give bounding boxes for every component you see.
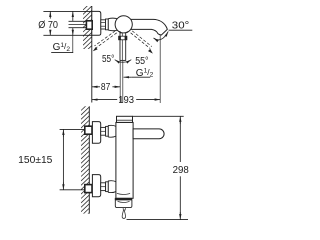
dashed lever position 55° right (131, 31, 152, 49)
dashed lever position 55° left (94, 31, 116, 48)
hex nut 1 top (front view) (101, 127, 106, 135)
hex nut 1 (top view) (101, 20, 106, 29)
arrowhead 55° left (93, 47, 98, 51)
aerator internal arc in tube (117, 193, 130, 194)
lever extension lines down to 87/193 dims (119, 60, 121, 102)
30° reference line (169, 29, 193, 31)
lever collar (top view) (119, 36, 127, 40)
svg-text:150±15: 150±15 (18, 155, 53, 166)
30° swivel arc with arrows (154, 31, 169, 39)
dimension 150±15 line (62, 129, 64, 189)
spout tip extension line (159, 35, 161, 103)
dimension 193 (92, 99, 160, 101)
150 dimension extension line bottom (60, 189, 85, 191)
dimension Ø70 extension lines (43, 10, 91, 12)
svg-text:87: 87 (101, 82, 111, 93)
wall hatching (top view) (83, 1, 92, 58)
svg-text:Ø 70: Ø 70 (38, 20, 58, 31)
escutcheon top (front view) (92, 122, 100, 144)
escutcheon bottom (front view) (92, 175, 100, 197)
dimension Ø70 line with arrows and text (49, 11, 51, 35)
hex nut 1 bottom (front view) (101, 183, 106, 191)
body horn (top view) (108, 18, 118, 31)
aerator inner arc (118, 201, 130, 202)
wall face line (top view) + extension down to dims (91, 6, 93, 103)
aerator joint thick band (115, 198, 132, 200)
S-union bottom (front view) (85, 185, 92, 193)
wall hatching (front view) (81, 102, 90, 220)
top cap (front view) (117, 116, 133, 122)
arrowhead 55° right (148, 49, 153, 54)
horn bottom connection (front view) (108, 181, 116, 193)
298 dimension extension line top (133, 115, 184, 117)
lever bar (top view) (120, 33, 126, 61)
lever dots (top view) (119, 31, 121, 33)
wall flange / escutcheon (top view) (92, 11, 101, 35)
S-union thick box (top view) (86, 21, 92, 29)
150 dimension extension line top (60, 128, 85, 130)
svg-text:55°: 55° (135, 56, 148, 67)
svg-text:55°: 55° (102, 54, 114, 65)
lever handle (front view) (133, 129, 164, 139)
G1/2 leader arrows at flange (vertical stubs) (72, 11, 74, 52)
S-union top (front view) (85, 126, 92, 134)
water drop (122, 210, 125, 218)
lever swing arc arrow (top view) (115, 60, 132, 63)
hex nut 2 bottom (front view) (106, 182, 109, 192)
hex nut 2 top (front view) (106, 126, 109, 136)
G1/2 leader arrow to lever line (124, 76, 132, 78)
S-union inlet pipe (top view) (69, 21, 87, 27)
body tube (front view) (116, 122, 133, 198)
spout (top view) (131, 19, 168, 35)
298 dimension extension line bottom (127, 219, 189, 221)
svg-text:298: 298 (173, 165, 190, 176)
horn top connection (front view) (108, 125, 116, 137)
aerator shell (115, 200, 132, 208)
cartridge dome circle (top view) (115, 16, 132, 33)
svg-text:193: 193 (118, 95, 134, 106)
water stem (123, 208, 125, 210)
hex nut 2 (top view) (106, 19, 109, 30)
dimension 298 line (179, 116, 181, 219)
dimension 87 (92, 86, 120, 88)
wall face line (front view) (88, 106, 90, 213)
